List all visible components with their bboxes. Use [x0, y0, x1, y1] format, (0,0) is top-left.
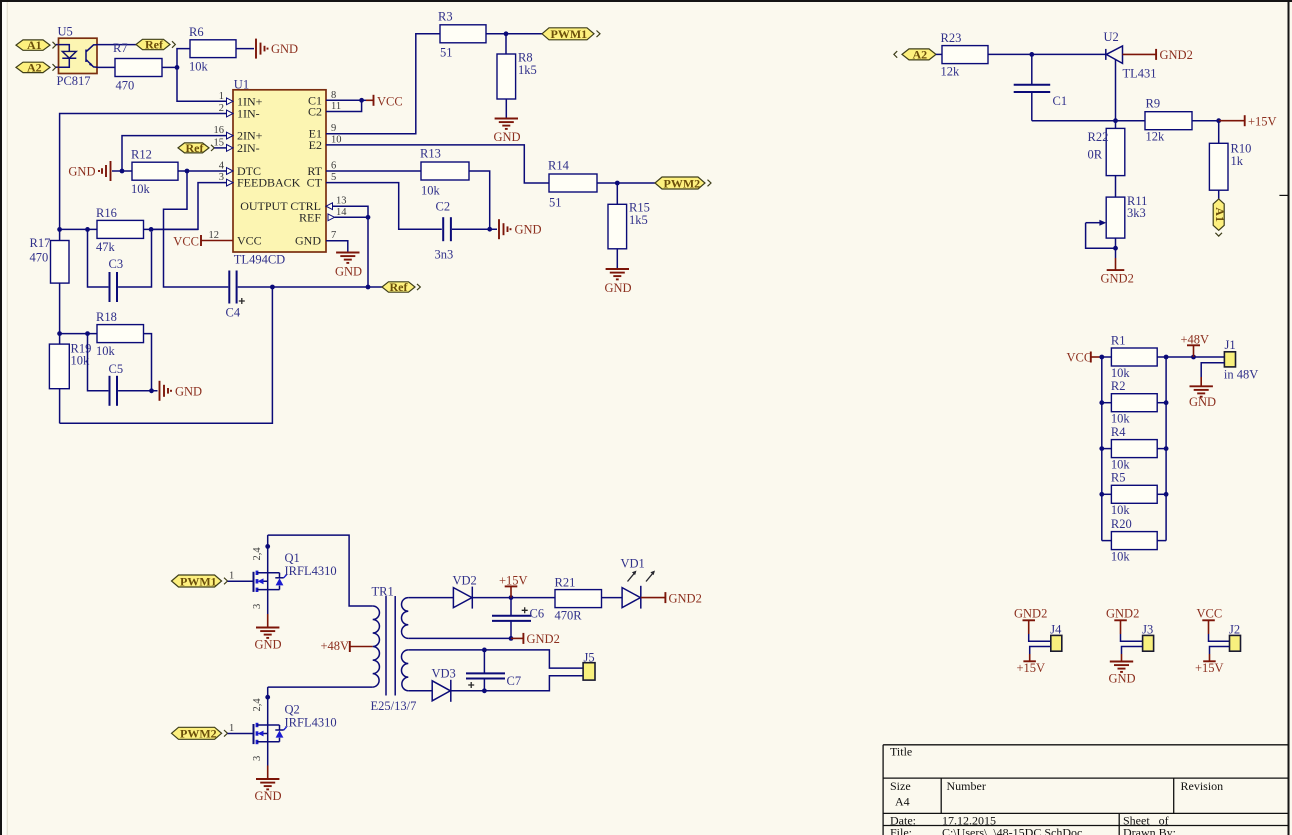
power +15V at C6 [499, 574, 528, 598]
power GND2 at C6 [511, 632, 560, 646]
resistor R10 [1209, 121, 1251, 199]
sheet zone tick right [1279, 194, 1288, 196]
svg-text:Size: Size [890, 779, 911, 793]
port A1 [16, 38, 56, 52]
wire 1IN- long [60, 114, 227, 230]
svg-text:51: 51 [440, 46, 453, 60]
resistor R6 [189, 25, 236, 73]
junction R1 right [1164, 355, 1169, 360]
node row y229: wire to R16 [60, 228, 97, 230]
svg-text:R18: R18 [96, 310, 117, 324]
svg-text:C6: C6 [530, 607, 545, 621]
transistor Q1 [254, 571, 287, 592]
svg-text:PWM1: PWM1 [180, 574, 217, 588]
resistor R8 [497, 51, 537, 100]
svg-text:GND: GND [255, 789, 282, 803]
right bus ladder [1165, 357, 1167, 541]
capacitor C2 [435, 200, 454, 262]
svg-text:GND: GND [1109, 672, 1136, 686]
wire R3 to PWM1 [486, 33, 542, 35]
svg-text:1IN-: 1IN- [237, 107, 260, 121]
title block frame [883, 745, 1288, 835]
pin arrows U1 left [227, 98, 335, 221]
svg-text:VCC: VCC [377, 94, 403, 108]
svg-text:5: 5 [331, 172, 336, 183]
wire pin14 [335, 216, 369, 218]
resistor R1 [1111, 334, 1166, 381]
wire E2 to R14 [326, 145, 549, 183]
shunt reference U2 TL431 [1106, 46, 1123, 121]
resistor R19 [49, 334, 91, 424]
wire R8 to GND [505, 99, 507, 119]
junction REF/C4 [270, 285, 275, 290]
svg-text:1k5: 1k5 [629, 213, 648, 227]
svg-text:10k: 10k [131, 182, 151, 196]
sheet border left [0, 0, 2, 835]
wire J4 pin1 [1029, 634, 1051, 641]
power VCC at J2 [1197, 607, 1223, 635]
svg-text:C2: C2 [308, 105, 322, 119]
wire Ref to pin15 [214, 147, 226, 149]
port A2 right [894, 48, 936, 62]
capacitor C5 [109, 362, 124, 406]
wire pin7 to GND [326, 241, 348, 253]
svg-text:13: 13 [336, 196, 347, 207]
junction R12 left [120, 169, 125, 174]
junction R17/R19 [57, 331, 62, 336]
connector J1 [1224, 338, 1258, 382]
wire J2 pin2 [1210, 647, 1230, 655]
wire R6 to GND [236, 48, 254, 50]
svg-text:10k: 10k [1111, 503, 1131, 517]
wire Q2 drain [267, 687, 269, 725]
wire REF bottom run [60, 287, 273, 423]
left bus ladder [1101, 357, 1103, 541]
svg-text:R7: R7 [113, 41, 128, 55]
junction R2 right [1164, 400, 1169, 405]
svg-text:C3: C3 [109, 257, 124, 271]
svg-text:GND: GND [605, 281, 632, 295]
wire J1 pin2 to GND [1201, 363, 1224, 377]
svg-text:TR1: TR1 [372, 585, 394, 599]
svg-text:IRFL4310: IRFL4310 [285, 564, 337, 578]
svg-text:PWM2: PWM2 [664, 176, 701, 190]
svg-text:3: 3 [252, 604, 263, 609]
wire R12 to pin4 [178, 170, 227, 172]
svg-text:2,4: 2,4 [252, 698, 263, 712]
svg-text:470: 470 [116, 79, 135, 93]
wire C3 left branch [88, 229, 109, 287]
svg-text:6: 6 [331, 161, 336, 172]
resistor R17 [30, 229, 70, 333]
earth GND at J1 [1189, 377, 1216, 409]
power gnd rotated at R6 [256, 39, 298, 59]
wire R21 to VD1 [602, 597, 623, 599]
svg-text:R23: R23 [941, 31, 962, 45]
junction REF/pins1314 [366, 285, 371, 290]
svg-text:J4: J4 [1050, 622, 1062, 636]
junction R4 right [1164, 446, 1169, 451]
wire node up to pin16 [122, 136, 227, 171]
junction 1IN-/R17/R16 [57, 227, 62, 232]
wire R13 right down [469, 171, 490, 229]
svg-text:+48V: +48V [321, 639, 350, 653]
svg-text:3: 3 [252, 756, 263, 761]
svg-text:U2: U2 [1104, 30, 1119, 44]
svg-text:GND2: GND2 [1106, 607, 1139, 621]
resistor R4 [1102, 425, 1166, 472]
svg-text:R14: R14 [548, 159, 570, 173]
svg-text:10k: 10k [421, 184, 441, 198]
port PWM2 drive [172, 727, 228, 741]
svg-text:R1: R1 [1111, 334, 1126, 348]
power VCC at pin8 [366, 94, 403, 108]
svg-text:10: 10 [331, 134, 342, 145]
resistor R12 [131, 148, 178, 196]
svg-text:GND: GND [271, 42, 298, 56]
connector J4 [1050, 622, 1062, 651]
svg-text:14: 14 [336, 207, 347, 218]
junction R11 bottom [1113, 246, 1118, 251]
svg-text:R16: R16 [96, 206, 117, 220]
svg-text:IRFL4310: IRFL4310 [285, 715, 337, 729]
node row y333: wire to R18 [60, 333, 97, 335]
wire sec1 bottom to GND2 [408, 637, 511, 639]
port Ref top [136, 38, 175, 52]
junction C2/R13 [487, 227, 492, 232]
wire Q1 source to GND [267, 590, 269, 614]
wire sec1 top to VD2 [408, 597, 453, 599]
port A1 down [1213, 199, 1227, 236]
svg-text:GND2: GND2 [1101, 272, 1134, 286]
power GND2 below R11 [1101, 248, 1134, 285]
svg-text:47k: 47k [96, 240, 116, 254]
svg-text:R20: R20 [1111, 517, 1132, 531]
svg-text:TL494CD: TL494CD [234, 253, 285, 267]
optocoupler U5 [59, 38, 98, 73]
junction Q2 drain [265, 695, 270, 700]
transformer TR1 secondary winding upper [401, 598, 408, 639]
earth GND R8 [494, 119, 521, 145]
junction C1 top [1029, 52, 1034, 57]
wire VD2 to +15V node [472, 597, 555, 599]
svg-text:Title: Title [890, 745, 912, 759]
svg-text:REF: REF [299, 210, 321, 224]
svg-text:E2: E2 [309, 138, 322, 152]
svg-text:12: 12 [209, 230, 220, 241]
svg-text:+48V: +48V [1181, 333, 1210, 347]
connector J5 [583, 651, 595, 681]
svg-text:J1: J1 [1225, 338, 1236, 352]
resistor R13 [420, 147, 469, 198]
svg-text:10k: 10k [189, 60, 209, 74]
power gnd rotated at C5 [160, 381, 203, 401]
svg-text:C4: C4 [226, 306, 241, 320]
junction R5 left [1099, 492, 1104, 497]
svg-text:GND2: GND2 [669, 592, 702, 606]
junction VD2/C6 [509, 595, 514, 600]
wire R23 to TL431 [988, 53, 1106, 55]
power VCC ladder [1067, 351, 1102, 365]
svg-text:A1: A1 [27, 38, 42, 52]
svg-text:PWM1: PWM1 [551, 27, 588, 41]
svg-text:R17: R17 [30, 236, 51, 250]
resistor R16 [96, 206, 144, 254]
svg-text:VD2: VD2 [453, 574, 477, 588]
earth GND R15 [605, 269, 632, 295]
junction R4 left [1099, 446, 1104, 451]
capacitor C4 [226, 271, 245, 320]
svg-text:R9: R9 [1146, 97, 1161, 111]
port Ref mid [178, 141, 214, 155]
junction Q1 drain [265, 544, 270, 549]
wire node to R15 [616, 183, 618, 204]
svg-text:GND2: GND2 [527, 632, 560, 646]
svg-text:Drawn By:: Drawn By: [1123, 826, 1176, 835]
svg-text:R4: R4 [1111, 425, 1126, 439]
power gnd rotated at C2 [499, 219, 542, 239]
svg-text:VCC: VCC [173, 235, 199, 249]
svg-text:C1: C1 [1053, 94, 1068, 108]
svg-text:VCC: VCC [1197, 607, 1223, 621]
power GND2 at J3 [1106, 607, 1139, 635]
svg-text:GND2: GND2 [1160, 48, 1193, 62]
svg-text:in 48V: in 48V [1224, 368, 1258, 382]
connector J2 [1229, 622, 1241, 651]
connector J3 [1142, 622, 1154, 651]
wire R9 to +15V [1192, 120, 1219, 122]
resistor R18 [96, 310, 144, 358]
junction C3 left branch [85, 227, 90, 232]
wire node down to pin1 [177, 67, 227, 101]
wire R16 right [144, 228, 199, 230]
transformer TR1 secondary winding lower [401, 650, 408, 691]
resistor R20 [1102, 517, 1166, 564]
svg-text:C5: C5 [109, 362, 124, 376]
junction pin14 [366, 215, 371, 220]
diode VD2 [453, 574, 477, 609]
resistor R9 [1145, 97, 1192, 144]
wire A1 to U5 [56, 44, 59, 46]
svg-text:C:\Users\..\48-15DC.SchDoc: C:\Users\..\48-15DC.SchDoc [942, 826, 1082, 835]
wire sec2 bottom to VD3 [408, 690, 432, 692]
svg-text:10k: 10k [1111, 458, 1131, 472]
junction R5 right [1164, 492, 1169, 497]
svg-text:16: 16 [214, 125, 225, 136]
capacitor C7 [466, 650, 521, 691]
wire sec2 top to J5 [408, 650, 583, 668]
power GND2 at J4 [1014, 607, 1047, 635]
svg-text:+15V: +15V [1195, 661, 1224, 675]
svg-text:10k: 10k [1111, 366, 1131, 380]
svg-text:10k: 10k [96, 344, 116, 358]
wire U5 emitter to R7 [97, 66, 115, 68]
wire PWM2 to gate [228, 733, 253, 735]
port Ref bottom [382, 280, 420, 294]
svg-text:VD3: VD3 [432, 667, 456, 681]
earth GND at J3 [1109, 654, 1136, 686]
svg-text:GND: GND [1189, 395, 1216, 409]
svg-text:10k: 10k [1111, 412, 1131, 426]
svg-text:1: 1 [229, 571, 234, 582]
wire REF line to port [272, 286, 382, 288]
power +15V at J4 [1017, 654, 1046, 675]
svg-text:File:: File: [890, 826, 912, 835]
svg-text:2,4: 2,4 [252, 547, 263, 561]
power GND2 at U2 [1123, 48, 1193, 62]
svg-text:U5: U5 [58, 25, 73, 39]
power VCC at pin12 [173, 235, 233, 249]
sheet border right [1288, 0, 1290, 835]
junction C5/R18 [149, 388, 154, 393]
wire U5 collector to Ref [97, 44, 136, 46]
svg-text:4: 4 [219, 161, 225, 172]
wire R14 to PWM2 [597, 182, 655, 184]
svg-text:J5: J5 [584, 651, 595, 665]
junction R1 left [1099, 355, 1104, 360]
svg-text:GND: GND [515, 223, 542, 237]
wire DTC node down to C4 line [164, 171, 229, 287]
svg-text:2: 2 [219, 103, 224, 114]
resistor R21 [555, 576, 602, 623]
resistor R7 [113, 41, 162, 93]
wire down to REF line [367, 217, 369, 287]
svg-text:C7: C7 [507, 674, 522, 688]
svg-text:R22: R22 [1088, 130, 1109, 144]
svg-text:9: 9 [331, 123, 336, 134]
wire FEEDBACK [151, 183, 226, 230]
svg-text:7: 7 [331, 230, 336, 241]
svg-text:GND: GND [175, 384, 202, 398]
wire drain to TR1 bottom [268, 686, 373, 688]
svg-text:A2: A2 [27, 61, 42, 75]
svg-text:Number: Number [947, 779, 986, 793]
power +48V up [1181, 333, 1210, 358]
wire node up to R6 [177, 49, 190, 68]
wire J4 pin2 [1030, 647, 1051, 655]
svg-text:1k: 1k [1231, 154, 1244, 168]
sheet border top [0, 0, 1292, 2]
junction R7/R6/pin1 [175, 65, 180, 70]
svg-text:GND: GND [295, 234, 321, 248]
svg-text:GND: GND [335, 265, 362, 279]
power +48V tap [321, 639, 373, 653]
junction R14/R15 [615, 181, 620, 186]
svg-text:3k3: 3k3 [1127, 206, 1146, 220]
svg-text:Ref: Ref [145, 38, 164, 52]
wire R18 right down [144, 334, 152, 391]
capacitor C1 [1014, 54, 1067, 120]
svg-text:2IN-: 2IN- [237, 141, 260, 155]
junction +48V [1191, 355, 1196, 360]
svg-text:VD1: VD1 [621, 557, 645, 571]
wire C1 to anode node [1032, 120, 1145, 122]
svg-text:12k: 12k [1146, 130, 1166, 144]
wire C5 right [118, 390, 157, 392]
svg-text:J2: J2 [1229, 622, 1240, 636]
junction anode/R22/R9 [1113, 118, 1118, 123]
potentiometer R11 [1086, 194, 1148, 248]
svg-text:FEEDBACK: FEEDBACK [237, 176, 301, 190]
svg-text:1k5: 1k5 [518, 63, 537, 77]
port PWM1 [542, 27, 600, 41]
junction C6 bottom [509, 636, 514, 641]
resistor R15 [608, 201, 650, 249]
port PWM1 drive [172, 574, 228, 588]
svg-text:GND2: GND2 [1014, 607, 1047, 621]
svg-text:8: 8 [331, 90, 336, 101]
svg-text:3n3: 3n3 [435, 248, 454, 262]
wire drain to TR1 top [268, 535, 373, 606]
svg-text:PC817: PC817 [57, 74, 91, 88]
svg-text:A1: A1 [1213, 207, 1227, 222]
wire Q2 source to GND [267, 742, 269, 766]
svg-text:15: 15 [214, 137, 225, 148]
svg-text:470R: 470R [555, 609, 583, 623]
wire gnd to R12 [112, 170, 132, 172]
junction R3/R8 [504, 31, 509, 36]
resistor R23 [941, 31, 989, 79]
svg-text:Ref: Ref [186, 141, 205, 155]
power gnd rotated at R12 [68, 161, 110, 181]
resistor R3 [438, 10, 486, 60]
svg-text:R12: R12 [131, 148, 152, 162]
resistor R14 [548, 159, 597, 210]
svg-text:Ref: Ref [390, 280, 409, 294]
svg-text:470: 470 [30, 251, 49, 265]
svg-text:C2: C2 [436, 200, 451, 214]
wire CT down [326, 183, 442, 230]
svg-text:VCC: VCC [237, 234, 262, 248]
svg-text:GND: GND [255, 638, 282, 652]
svg-text:10k: 10k [1111, 550, 1131, 564]
power +15V at J2 [1195, 654, 1224, 675]
LED VD1 [621, 557, 656, 609]
wire C2 to gnd node [452, 228, 497, 230]
svg-text:R21: R21 [555, 576, 576, 590]
wire C5 left branch [88, 334, 109, 391]
wire R15 to GND [616, 249, 618, 269]
resistor R22 [1088, 121, 1125, 197]
svg-text:GND: GND [68, 165, 95, 179]
svg-text:R6: R6 [189, 25, 204, 39]
svg-text:+15V: +15V [499, 574, 528, 588]
svg-text:Revision: Revision [1181, 779, 1224, 793]
junction pin8 [359, 98, 364, 103]
svg-text:11: 11 [331, 101, 341, 112]
capacitor C3 [109, 257, 124, 302]
IC U1 TL494CD [233, 90, 326, 252]
svg-text:R5: R5 [1111, 471, 1126, 485]
svg-text:+15V: +15V [1248, 115, 1277, 129]
diode VD3 [432, 667, 456, 702]
wire pin13/14 to REF [333, 206, 369, 217]
wire R3 node to R8 [505, 34, 507, 54]
power GND2 at VD1 [641, 592, 702, 606]
svg-text:A4: A4 [895, 795, 910, 809]
svg-text:E25/13/7: E25/13/7 [371, 699, 417, 713]
transistor Q2 [254, 723, 287, 744]
svg-text:1: 1 [229, 723, 234, 734]
junction R2 left [1099, 400, 1104, 405]
pin numbers U1 [209, 90, 348, 241]
wire R7 to node [162, 66, 177, 68]
wire E1 to R3 [326, 34, 440, 134]
wire J2 pin1 [1209, 634, 1230, 641]
wire RT to R13 [326, 170, 421, 172]
junction C7 top [482, 648, 487, 653]
svg-text:VCC: VCC [1067, 351, 1093, 365]
